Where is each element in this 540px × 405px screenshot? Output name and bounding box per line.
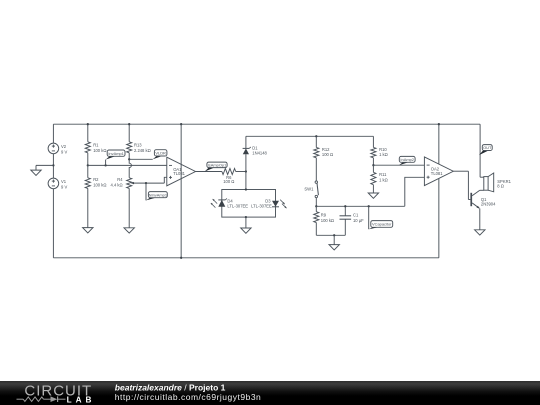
svg-text:TL081: TL081 (431, 171, 443, 176)
svg-text:1 kΩ: 1 kΩ (379, 152, 388, 157)
svg-text:TL081: TL081 (173, 171, 185, 176)
svg-text:V2: V2 (61, 144, 67, 149)
svg-text:1 kΩ: 1 kΩ (379, 178, 388, 183)
svg-text:R4: R4 (117, 177, 123, 182)
svg-text:SW1: SW1 (304, 187, 314, 192)
svg-text:100 kΩ: 100 kΩ (321, 218, 334, 223)
svg-text:http://circuitlab.com/c69rjugy: http://circuitlab.com/c69rjugyt9b3n (115, 392, 261, 402)
svg-text:R11: R11 (379, 172, 387, 177)
svg-text:100 kΩ: 100 kΩ (93, 183, 106, 188)
svg-text:VCapacitor: VCapacitor (372, 222, 392, 227)
svg-text:4.4 kΩ: 4.4 kΩ (111, 183, 123, 188)
svg-text:LTL-307EE: LTL-307EE (251, 204, 272, 209)
svg-text:LTL-307EE: LTL-307EE (227, 204, 248, 209)
svg-text:100 Ω: 100 Ω (223, 179, 234, 184)
svg-text:InAmp2: InAmp2 (400, 157, 414, 162)
svg-text:IsAmpOp1: IsAmpOp1 (208, 162, 227, 167)
svg-text:9 V: 9 V (61, 184, 67, 189)
svg-text:R2: R2 (93, 177, 99, 182)
svg-text:OUT: OUT (483, 145, 492, 150)
svg-text:R13: R13 (134, 143, 142, 148)
svg-text:1N4148: 1N4148 (252, 150, 267, 155)
svg-text:10 µF: 10 µF (353, 218, 364, 223)
svg-text:InvAmp1: InvAmp1 (108, 151, 124, 156)
svg-text:LAB: LAB (67, 395, 96, 404)
svg-text:R9: R9 (321, 213, 327, 218)
svg-text:8 Ω: 8 Ω (497, 184, 504, 189)
svg-text:R1: R1 (93, 143, 99, 148)
svg-text:C1: C1 (353, 213, 359, 218)
svg-text:100 Ω: 100 Ω (322, 152, 333, 157)
svg-text:V1: V1 (61, 179, 67, 184)
svg-text:R12: R12 (322, 147, 330, 152)
svg-text:9 V: 9 V (61, 149, 67, 154)
svg-text:R10: R10 (379, 147, 387, 152)
svg-text:NInvAmp1: NInvAmp1 (149, 192, 167, 197)
svg-text:2.248 kΩ: 2.248 kΩ (134, 148, 151, 153)
svg-text:VLDR: VLDR (155, 150, 166, 155)
svg-text:2N3904: 2N3904 (481, 201, 496, 206)
svg-text:100 kΩ: 100 kΩ (93, 148, 106, 153)
